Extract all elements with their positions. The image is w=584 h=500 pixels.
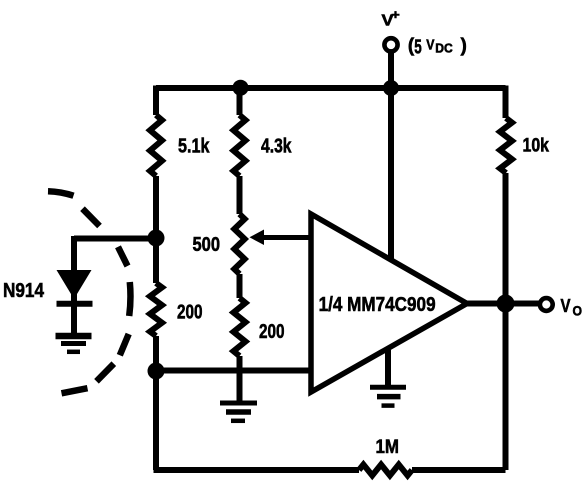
svg-text:10k: 10k (523, 136, 550, 157)
svg-text:O: O (573, 304, 583, 319)
svg-text:DC: DC (435, 42, 453, 56)
svg-text:V: V (561, 296, 571, 316)
svg-text:1M: 1M (376, 437, 400, 458)
svg-text:200: 200 (177, 302, 203, 324)
svg-text:5: 5 (414, 37, 422, 59)
svg-text:1/4 MM74C909: 1/4 MM74C909 (319, 293, 436, 316)
svg-text:): ) (461, 36, 467, 57)
svg-text:N914: N914 (3, 280, 45, 302)
svg-text:500: 500 (193, 234, 221, 256)
svg-text:+: + (391, 8, 400, 22)
svg-text:5.1k: 5.1k (178, 136, 210, 158)
svg-text:200: 200 (259, 321, 285, 343)
svg-text:4.3k: 4.3k (261, 136, 292, 158)
svg-text:V: V (426, 37, 434, 54)
